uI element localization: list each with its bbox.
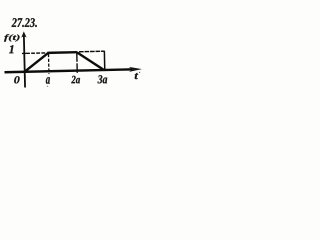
y-axis (f axis): [24, 35, 25, 88]
thin vertical construction line at t=3a: [103, 51, 105, 69]
scan speckle near t label: [139, 72, 140, 73]
y-axis arrowhead: [21, 31, 27, 37]
ramp down segment of f(t) from 2a to 3a: [77, 52, 104, 71]
vertical line at t=2a: [76, 52, 79, 74]
flat top segment of f(t) from a to 2a: [47, 51, 77, 54]
ramp up segment of f(t) from 0 to a: [24, 53, 49, 72]
x-axis (t axis): [5, 69, 134, 72]
label 3a: [98, 75, 108, 83]
dashed top construction line from 2a to 3a: [79, 50, 105, 53]
label 2a: [71, 76, 80, 84]
label a: [46, 77, 50, 84]
tick at 1 on y-axis: [22, 52, 26, 54]
axis label t: [135, 73, 139, 79]
scan speckle below a label: [47, 86, 48, 87]
axis label f(t): [4, 34, 20, 41]
x-axis arrowhead: [129, 67, 142, 72]
dashed level line y=1 from axis to ramp top: [26, 52, 45, 54]
dashed vertical at t=a: [48, 54, 50, 74]
origin label 0: [14, 76, 19, 83]
problem number 27.23.: [12, 18, 37, 27]
label 1 on y-axis: [9, 45, 14, 53]
